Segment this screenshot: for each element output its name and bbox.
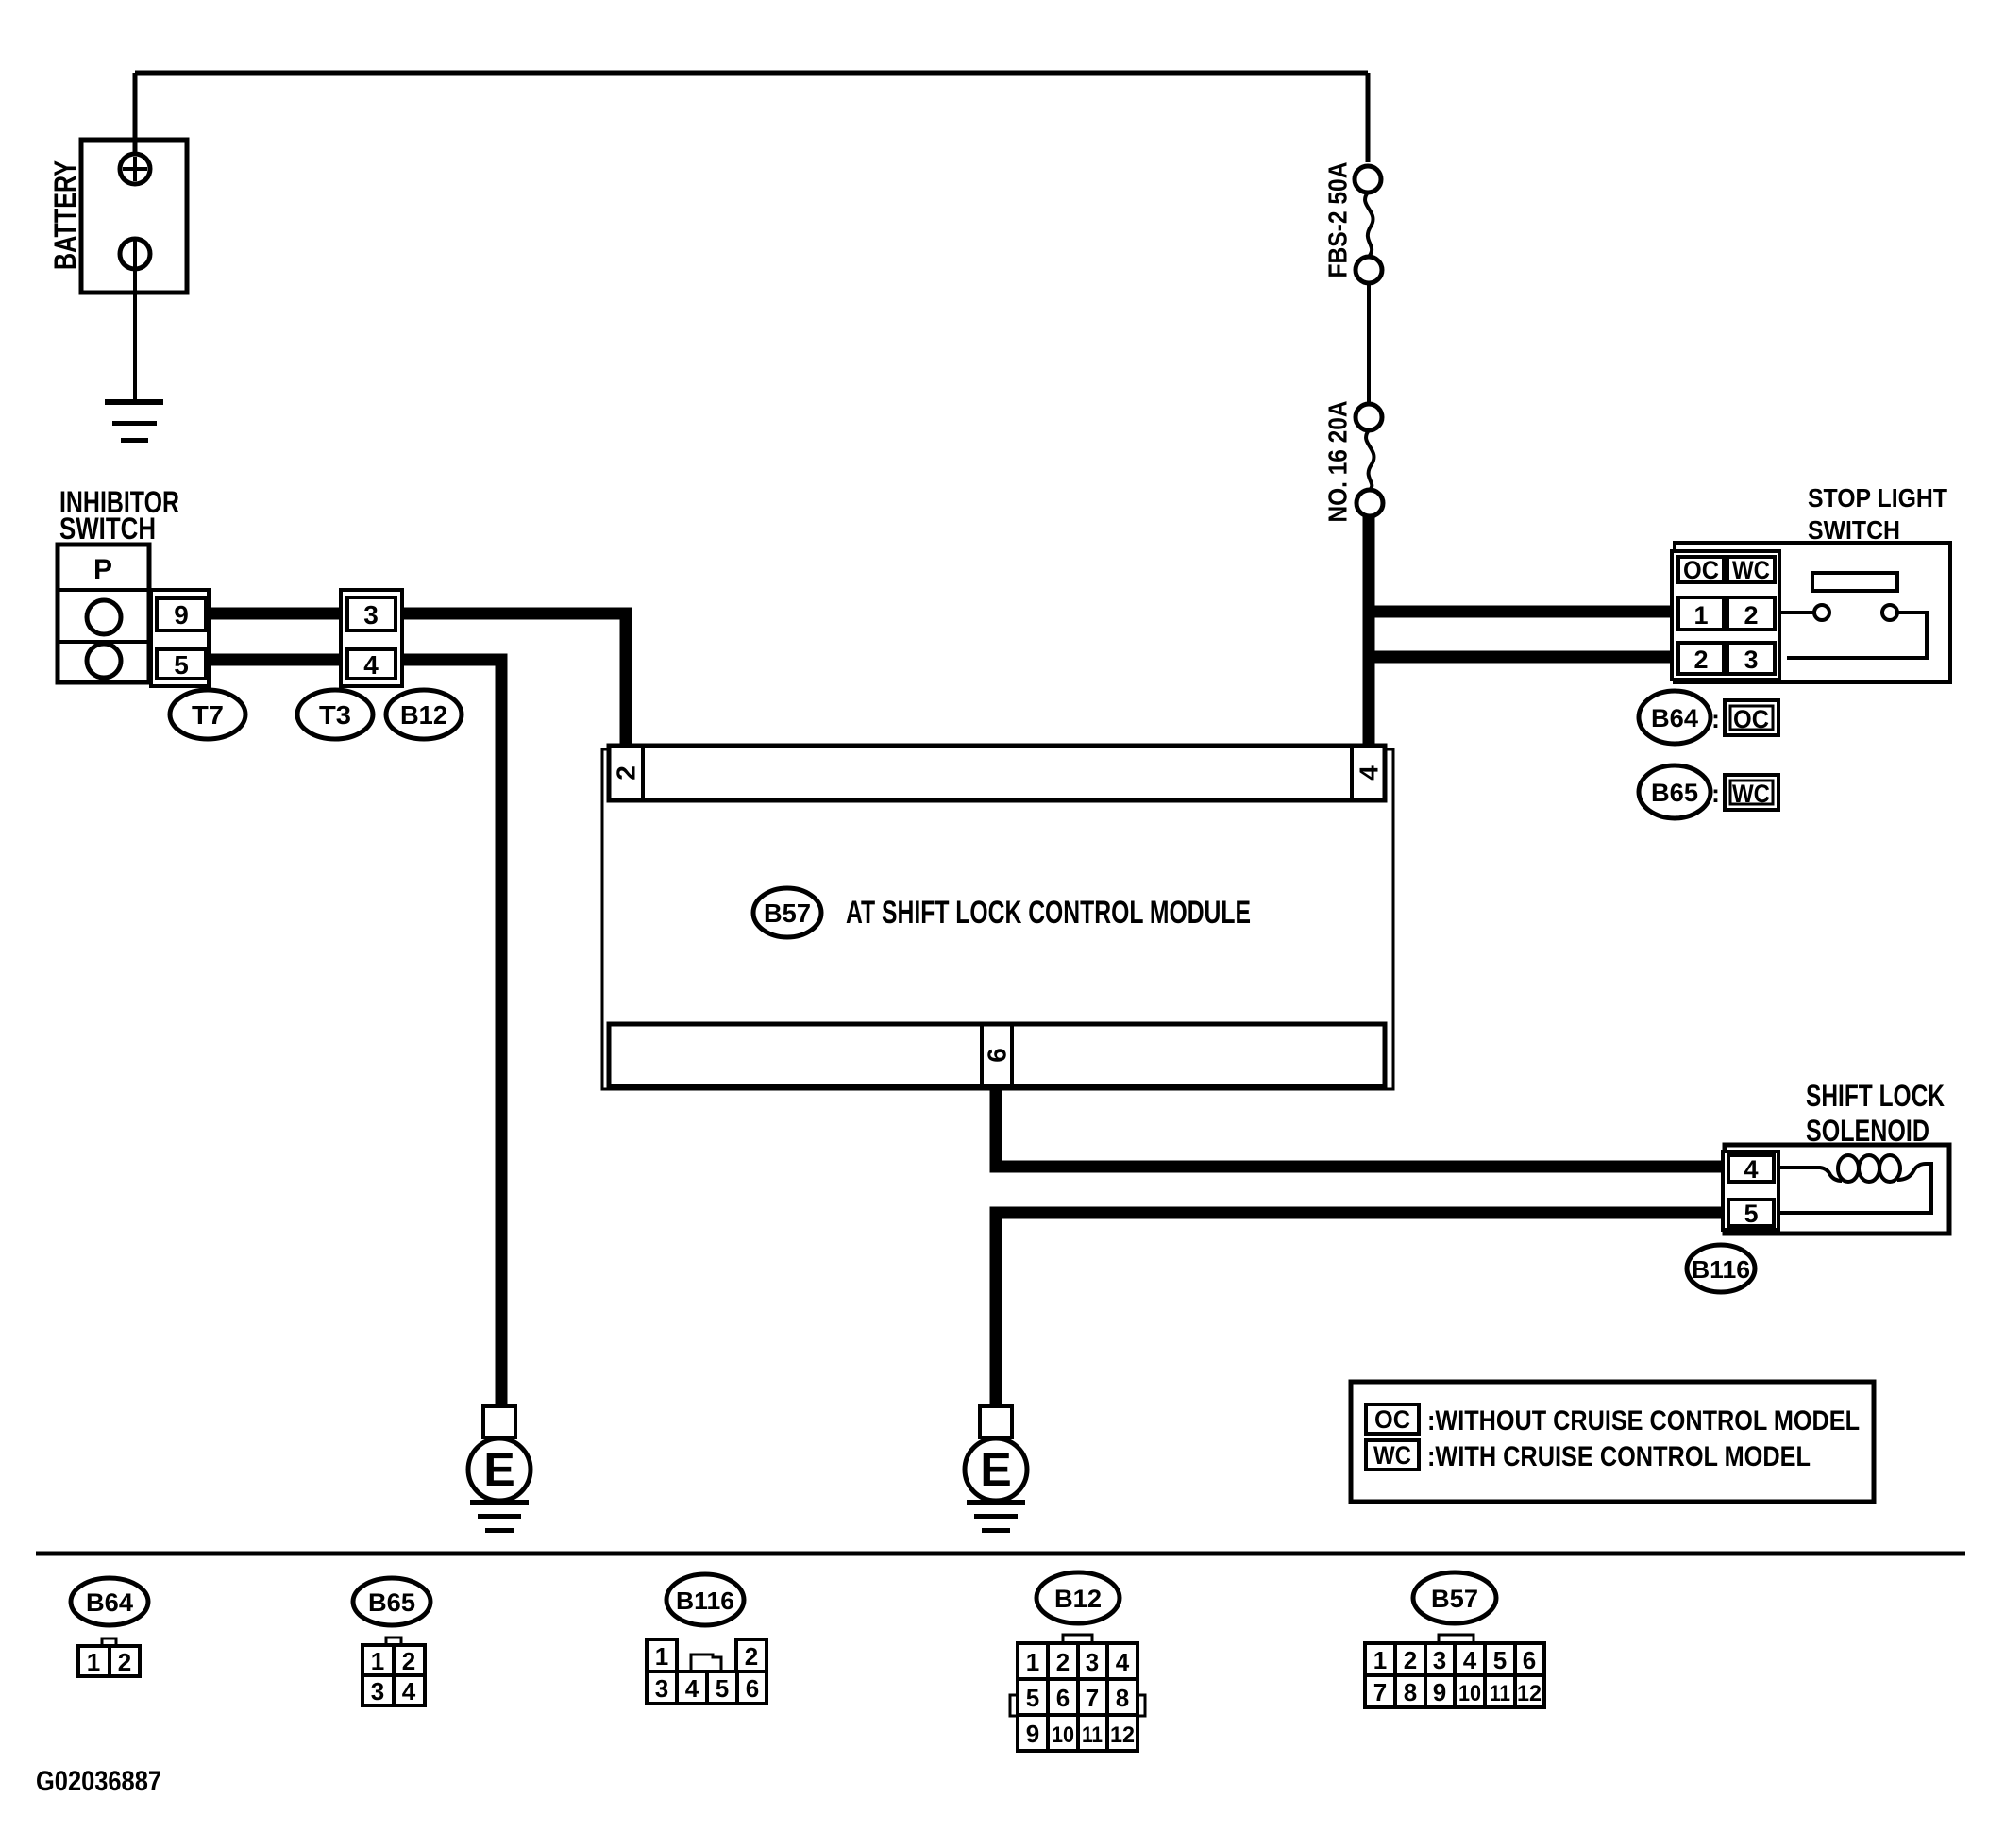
- svg-text:8: 8: [1116, 1684, 1129, 1712]
- svg-text:1: 1: [655, 1642, 668, 1671]
- svg-text:WC: WC: [1373, 1441, 1411, 1470]
- svg-text:B64: B64: [1651, 704, 1698, 732]
- svg-text:4: 4: [363, 650, 379, 680]
- svg-text:B116: B116: [676, 1587, 734, 1615]
- svg-text:3: 3: [1744, 646, 1758, 674]
- svg-text:3: 3: [1433, 1646, 1446, 1674]
- svg-text:G02036887: G02036887: [36, 1766, 161, 1797]
- svg-text:2: 2: [1744, 601, 1758, 630]
- svg-text::: :: [1711, 780, 1720, 808]
- svg-text:2: 2: [745, 1642, 758, 1671]
- svg-text:SWITCH: SWITCH: [1808, 515, 1900, 545]
- svg-text:5: 5: [174, 650, 189, 680]
- svg-text:2: 2: [1056, 1648, 1070, 1676]
- svg-text:1: 1: [371, 1647, 384, 1675]
- svg-text:12: 12: [1517, 1681, 1542, 1706]
- svg-text:2: 2: [118, 1648, 131, 1676]
- svg-text:6: 6: [1523, 1646, 1536, 1674]
- svg-text:1: 1: [1026, 1648, 1039, 1676]
- svg-text:5: 5: [1493, 1646, 1507, 1674]
- svg-text:B65: B65: [368, 1588, 415, 1617]
- svg-text:4: 4: [685, 1674, 699, 1703]
- svg-text:STOP LIGHT: STOP LIGHT: [1808, 483, 1947, 512]
- svg-text:3: 3: [655, 1674, 668, 1703]
- svg-text:4: 4: [402, 1677, 416, 1705]
- svg-text:10: 10: [1052, 1722, 1074, 1748]
- svg-text:6: 6: [983, 1048, 1012, 1063]
- svg-text:4: 4: [1463, 1646, 1477, 1674]
- svg-text:T3: T3: [319, 700, 351, 730]
- svg-text:8: 8: [1404, 1678, 1417, 1706]
- svg-text:9: 9: [1026, 1720, 1039, 1748]
- svg-text:2: 2: [1404, 1646, 1417, 1674]
- svg-text:OC: OC: [1374, 1405, 1410, 1434]
- svg-text:1: 1: [87, 1648, 100, 1676]
- svg-text::WITH CRUISE CONTROL MODEL: :WITH CRUISE CONTROL MODEL: [1427, 1441, 1811, 1472]
- svg-text:T7: T7: [192, 700, 224, 730]
- svg-text:3: 3: [1086, 1648, 1099, 1676]
- svg-text:4: 4: [1744, 1155, 1758, 1184]
- svg-text:FBS-2 50A: FBS-2 50A: [1323, 162, 1353, 278]
- svg-text:11: 11: [1490, 1681, 1510, 1706]
- svg-text:5: 5: [1744, 1200, 1758, 1228]
- svg-text:B12: B12: [400, 700, 447, 730]
- svg-text:SWITCH: SWITCH: [59, 512, 156, 546]
- svg-text:2: 2: [612, 765, 641, 781]
- svg-text:10: 10: [1458, 1681, 1481, 1706]
- svg-text:9: 9: [174, 600, 189, 630]
- svg-text:5: 5: [1026, 1684, 1039, 1712]
- svg-text:11: 11: [1082, 1722, 1103, 1748]
- svg-text:1: 1: [1693, 601, 1708, 630]
- svg-text:WC: WC: [1732, 780, 1770, 808]
- svg-text:1: 1: [1373, 1646, 1387, 1674]
- svg-text:4: 4: [1116, 1648, 1130, 1676]
- svg-text:B116: B116: [1692, 1255, 1750, 1284]
- svg-text:B57: B57: [1431, 1585, 1478, 1613]
- svg-text::WITHOUT CRUISE CONTROL MODEL: :WITHOUT CRUISE CONTROL MODEL: [1427, 1405, 1860, 1436]
- svg-text:5: 5: [716, 1674, 729, 1703]
- svg-text:B64: B64: [86, 1588, 133, 1617]
- svg-text:P: P: [93, 554, 112, 585]
- svg-text:B12: B12: [1054, 1585, 1102, 1613]
- svg-text:OC: OC: [1733, 705, 1769, 733]
- svg-text:BATTERY: BATTERY: [48, 160, 82, 270]
- svg-text:3: 3: [371, 1677, 384, 1705]
- svg-text:9: 9: [1433, 1678, 1446, 1706]
- svg-text:WC: WC: [1732, 556, 1770, 584]
- svg-text:6: 6: [1056, 1684, 1070, 1712]
- svg-text:E: E: [980, 1443, 1011, 1496]
- svg-text:2: 2: [402, 1647, 415, 1675]
- svg-text:NO. 16 20A: NO. 16 20A: [1323, 401, 1353, 523]
- svg-text:12: 12: [1110, 1722, 1135, 1748]
- svg-text:3: 3: [363, 600, 379, 630]
- svg-text:SHIFT LOCK: SHIFT LOCK: [1806, 1079, 1945, 1113]
- svg-text:4: 4: [1355, 765, 1384, 781]
- svg-text:E: E: [483, 1443, 514, 1496]
- svg-text:AT SHIFT LOCK CONTROL MODULE: AT SHIFT LOCK CONTROL MODULE: [846, 895, 1251, 931]
- svg-text:7: 7: [1373, 1678, 1387, 1706]
- svg-text:7: 7: [1086, 1684, 1099, 1712]
- svg-text:B65: B65: [1651, 779, 1698, 807]
- svg-text::: :: [1711, 705, 1720, 733]
- svg-text:2: 2: [1693, 646, 1708, 674]
- svg-text:6: 6: [746, 1674, 759, 1703]
- svg-text:B57: B57: [764, 899, 811, 928]
- svg-text:OC: OC: [1683, 556, 1719, 584]
